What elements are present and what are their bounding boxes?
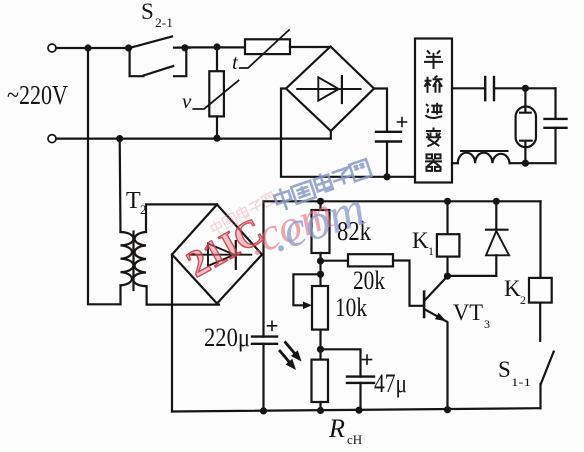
terminal bottom-left [48, 135, 56, 143]
watermark blue .com [263, 180, 371, 263]
node junction VT3 collector [444, 273, 451, 280]
svg-text:t: t [232, 50, 239, 74]
svg-text:.com: .com [263, 180, 371, 263]
node junction varistor top [213, 43, 220, 50]
wire to thermistor [185, 46, 245, 48]
resistor 20k [321, 260, 349, 262]
bridge rectifier B2 [172, 205, 262, 304]
wire B1 DC- to inverter rail [281, 89, 415, 177]
wire lamp bottom node [510, 162, 556, 164]
lamp tube [524, 88, 526, 106]
varistor v [216, 47, 218, 71]
node junction Rcds bottom [317, 407, 324, 414]
svg-text:3: 3 [484, 317, 490, 331]
inverter box text 半桥逆变器 [424, 50, 443, 170]
potentiometer 10k [312, 286, 328, 330]
svg-text:cH: cH [347, 432, 362, 447]
node junction 82k top [317, 198, 324, 205]
wire thermistor to bridge1 top [290, 46, 331, 48]
node junction K1 top [444, 198, 451, 205]
node junction diode D top [493, 198, 500, 205]
switch S1-1 [541, 352, 554, 384]
node junction switch left [125, 44, 132, 51]
svg-text:VT: VT [453, 300, 483, 325]
wire DC- of B2 down to bottom rail [171, 255, 173, 412]
relay coil K1 [446, 201, 448, 234]
svg-text:S: S [498, 357, 511, 382]
capacitor C3 right [554, 88, 556, 119]
svg-text:20k: 20k [353, 266, 385, 295]
wire bottom AC line [56, 138, 331, 140]
photoresistor Rcds [312, 360, 329, 402]
svg-text:10k: 10k [335, 293, 367, 322]
terminal top-left [48, 44, 56, 52]
capacitor 47u [321, 349, 361, 376]
coupling capacitor C2 [484, 77, 486, 100]
svg-text:S: S [141, 0, 154, 24]
svg-text:T: T [126, 188, 141, 214]
thermistor t [245, 39, 290, 54]
wire DC+ of B2: top rail riser [262, 201, 264, 336]
wire T2 secondary top lead [146, 204, 217, 232]
diode inside B2 [189, 254, 251, 256]
wire top AC line [56, 47, 128, 49]
node junction lamp bottom [522, 160, 529, 167]
watermark red 21IC [180, 210, 271, 286]
wire T2 secondary bottom lead [146, 286, 219, 305]
relay coil K2 [539, 201, 541, 278]
resistor 82k [319, 201, 321, 210]
watermark pink chinese [209, 192, 276, 236]
watermark blue chinese 中国电子网 [273, 159, 372, 212]
wire B1 bottom vertex to AC line [330, 131, 332, 138]
node junction 220u bottom [260, 407, 267, 414]
node junction VT3 emitter bottom [444, 406, 451, 413]
node junction lamp top [522, 85, 529, 92]
svg-text:2: 2 [520, 293, 526, 307]
svg-text:K: K [412, 228, 429, 253]
node junction varistor bottom [213, 135, 220, 142]
wire left AC branch down [88, 48, 121, 304]
wire T2 primary top lead [119, 139, 122, 232]
bridge rectifier B1 [286, 47, 374, 132]
node junction 47u branch [317, 346, 324, 353]
svg-text:47μ: 47μ [374, 369, 407, 398]
node junction T2 primary top [116, 135, 123, 142]
svg-text:v: v [182, 89, 192, 113]
svg-text:1-1: 1-1 [511, 375, 531, 389]
wire inverter output top [452, 87, 485, 89]
svg-text:K: K [504, 276, 521, 301]
node junction 20k branch [317, 257, 324, 264]
diode inside B1 [297, 88, 360, 90]
node junction 47u bottom [355, 407, 362, 414]
svg-text:2: 2 [140, 202, 147, 217]
inductor L1 [452, 162, 458, 164]
transformer T2 [121, 232, 134, 285]
capacitor C1 [374, 89, 387, 132]
transistor VT3 [423, 292, 426, 317]
light arrows [280, 343, 294, 362]
watermark pink .com [239, 186, 340, 265]
svg-text:R: R [328, 414, 345, 443]
switch S2-1 [131, 37, 172, 48]
wire bottom rail [172, 408, 540, 411]
wire 20k to VT3 base [393, 261, 424, 306]
diode D across K1 [495, 201, 497, 230]
inverter box U1 [415, 39, 452, 183]
wire top rail of control section [264, 200, 541, 202]
node junction top A [84, 44, 91, 51]
svg-text:220μ: 220μ [204, 323, 250, 352]
node junction cap1 bottom [383, 173, 390, 180]
svg-text:~220V: ~220V [7, 80, 68, 110]
wire collector node to diode [447, 275, 496, 277]
svg-text:1: 1 [428, 244, 434, 258]
node junction wiper [317, 271, 324, 278]
svg-text:2-1: 2-1 [155, 15, 173, 30]
capacitor 220u [252, 335, 277, 337]
